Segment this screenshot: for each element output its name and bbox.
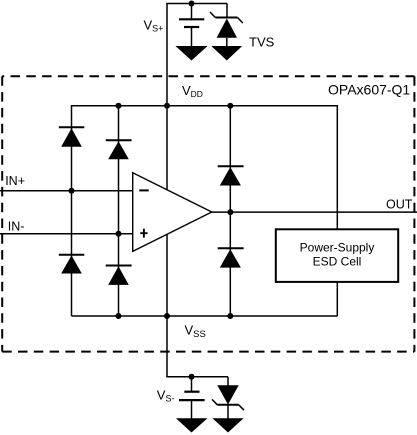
diode D3 VSS to IN+ (59, 255, 85, 274)
wire op-amp VSS pin down to VSS rail and VS- (166, 234, 168, 376)
dashed IC boundary box left edge (1, 76, 3, 351)
wire ESD cell to VSS rail (336, 282, 338, 316)
wire IN- input (0, 233, 133, 235)
svg-text:OUT: OUT (386, 198, 413, 212)
wire bottom horizontal from VS- to TVS (166, 376, 228, 378)
capacitor C bypass bottom plate (184, 26, 199, 28)
wire capacitor C bottom stub (191, 27, 193, 47)
capacitor C bypass top plate (179, 18, 204, 20)
op-amp U1 (133, 173, 212, 252)
wire IN- lower ESD column (IN- to VSS) (118, 234, 120, 316)
ground symbol under bottom TVS (212, 418, 243, 432)
diode D6 VSS to output (218, 248, 244, 267)
wire VDD rail (72, 105, 338, 107)
wire IN+ ESD column (VDD to IN+) (71, 105, 73, 191)
wire VSS rail (72, 315, 338, 317)
node VDD-output-diode junction (227, 103, 233, 109)
wire capacitor C2 top stub (191, 377, 193, 392)
node junction dot bottom (bypass cap tap) (189, 374, 195, 380)
ground symbol under top capacitor (175, 46, 207, 61)
node VSS-output-diode junction (227, 313, 233, 319)
svg-text:TVS: TVS (249, 35, 275, 50)
node IN+ junction (69, 188, 75, 194)
node VDD-col2 junction (116, 103, 122, 109)
svg-text:OPAx607-Q1: OPAx607-Q1 (328, 82, 410, 98)
diode D2 IN- to VDD (106, 140, 132, 159)
TVS diode bottom (zener) (212, 377, 244, 419)
wire IN- ESD column (VDD to IN-) (118, 106, 120, 234)
wire capacitor C2 bottom stub (191, 400, 193, 419)
svg-text:IN-: IN- (8, 219, 25, 233)
power-supply ESD cell box (276, 229, 398, 282)
wire IN+ input (0, 190, 133, 192)
TVS diode top (zener) (210, 4, 243, 47)
wire IN+ lower ESD column (IN+ to VSS) (71, 191, 73, 316)
svg-text:ESD Cell: ESD Cell (313, 255, 362, 269)
wire output from op-amp to OUT (212, 211, 417, 213)
node VSS-col2 junction (116, 313, 122, 319)
svg-text:Power-Supply: Power-Supply (300, 241, 375, 255)
ground symbol under bottom capacitor (176, 418, 208, 432)
capacitor C2 bypass top plate (184, 391, 199, 393)
diode D5 output to VDD (218, 166, 244, 185)
wire capacitor C top stub (191, 4, 193, 19)
node output junction (227, 209, 233, 215)
capacitor C2 bypass bottom plate (179, 399, 205, 401)
wire VDD to ESD cell (336, 105, 338, 229)
wire output ESD column (VDD to VSS through output) (229, 106, 231, 316)
dashed IC boundary box right edge (413, 76, 415, 351)
dashed IC boundary box bottom edge (2, 351, 414, 353)
ground symbol under top TVS (211, 46, 242, 61)
node junction dot top (bypass cap tap) (189, 1, 195, 7)
dashed IC boundary box top edge (2, 75, 414, 77)
diode D4 VSS to IN- (106, 266, 132, 285)
wire top horizontal from VS+ to TVS (166, 3, 227, 5)
diode D1 IN+ to VDD (59, 127, 85, 146)
node IN- junction (116, 231, 122, 237)
node VDD-VS+ junction (164, 103, 170, 109)
svg-text:IN+: IN+ (5, 174, 25, 188)
node VSS-VS- junction (164, 313, 170, 319)
wire VS+ vertical (top supply into VDD rail and op-amp V+ pin) (166, 4, 168, 191)
